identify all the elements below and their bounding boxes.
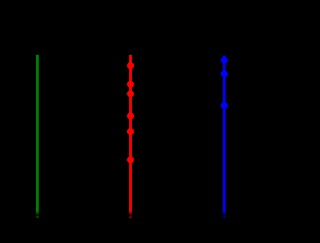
blue marker 3	[221, 102, 228, 109]
blue line bottom tip	[223, 216, 226, 218]
red marker 5	[127, 128, 134, 135]
blue vertical line	[223, 56, 226, 217]
red vertical line	[129, 55, 132, 216]
green line bottom tip	[36, 216, 39, 218]
red line bottom tip	[129, 216, 132, 218]
green vertical line (no markers)	[36, 55, 39, 216]
red marker 3	[127, 90, 134, 97]
red marker 6	[127, 156, 134, 163]
red marker 1	[127, 62, 134, 69]
blue marker 2	[221, 70, 228, 77]
blue marker 1	[221, 57, 228, 64]
red marker 2	[127, 81, 134, 88]
red marker 4	[127, 112, 134, 119]
